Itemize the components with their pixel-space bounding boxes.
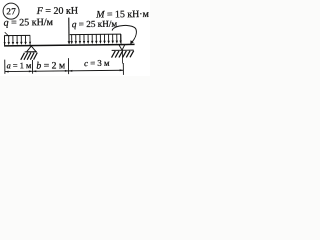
svg-text:a = 1 м: a = 1 м [7, 61, 32, 70]
ground line support B [112, 49, 134, 51]
svg-text:c = 3 м: c = 3 м [84, 58, 110, 68]
problem number badge 27 [3, 3, 19, 19]
svg-text:q = 25 кН/м: q = 25 кН/м [72, 19, 118, 30]
beam [4, 44, 134, 46]
svg-text:F = 20 кН: F = 20 кН [36, 6, 78, 17]
roller support B inverted triangle [119, 45, 125, 50]
dimension line [5, 70, 124, 71]
pin support A triangle [26, 46, 36, 52]
stem below support B [121, 50, 123, 63]
svg-text:q = 25 кН/м: q = 25 кН/м [4, 17, 54, 29]
moment arrow M [112, 25, 136, 44]
leader line from left q label [5, 32, 9, 36]
ground hatching support A [21, 52, 38, 60]
svg-text:b = 2 м: b = 2 м [36, 60, 65, 71]
svg-text:27: 27 [6, 6, 16, 16]
right distributed load [70, 34, 122, 44]
ground hatching support B [111, 51, 133, 58]
force F arrow [67, 18, 70, 45]
left distributed load [4, 35, 32, 45]
dimension arrowheads [5, 69, 123, 72]
extension tick a-b [31, 60, 33, 74]
extension tick left end [4, 60, 6, 74]
extension tick b-c [67, 58, 69, 74]
extension tick right end [122, 63, 124, 75]
